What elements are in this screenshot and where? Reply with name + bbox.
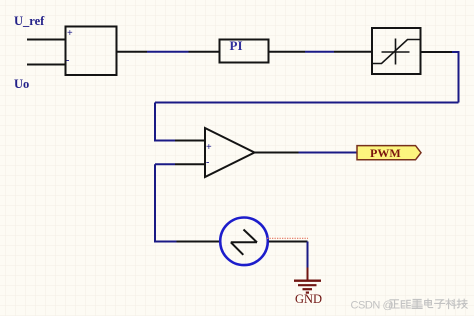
- comparator U2 triangle: [205, 128, 255, 177]
- limiter axis vertical: [395, 39, 397, 65]
- pin comparator plus: [175, 140, 205, 142]
- svg-text:-: -: [66, 55, 69, 66]
- wire oscillator to GND: [307, 242, 309, 268]
- pin U1 input +: [27, 39, 66, 41]
- wire PI to limiter: [305, 51, 334, 53]
- pin PI output: [270, 51, 306, 53]
- watermark chinese glyphs: [390, 299, 468, 309]
- limiter saturation curve: [372, 40, 421, 64]
- wire feedback horizontal: [155, 102, 459, 104]
- pin U1 output: [117, 51, 148, 53]
- oscillator sawtooth symbol: [231, 230, 257, 255]
- port PWM: [357, 146, 421, 160]
- svg-text:PI: PI: [230, 38, 243, 53]
- wire limiter output corner down: [452, 52, 459, 103]
- glyph 正: [390, 300, 400, 308]
- compile error marker (red dotted): [267, 237, 308, 239]
- wire comparator to PWM port: [299, 152, 358, 154]
- limiter block body: [372, 28, 421, 74]
- pin PI input: [189, 51, 219, 53]
- wire U1 to PI: [147, 51, 189, 53]
- svg-text:+: +: [206, 142, 212, 153]
- glyph 子: [435, 300, 445, 308]
- pin comparator minus: [175, 163, 205, 165]
- oscillator V1 circle: [220, 218, 268, 266]
- glyph 技: [457, 299, 467, 308]
- wire to comparator minus: [155, 163, 175, 165]
- limiter axis horizontal: [382, 51, 410, 53]
- wire comparator minus down left: [155, 164, 177, 241]
- pin comparator output: [255, 152, 299, 154]
- summing block U1 body: [66, 27, 117, 76]
- svg-text:GND: GND: [295, 292, 322, 306]
- pin oscillator left: [177, 241, 220, 243]
- pin limiter input: [334, 51, 371, 53]
- pin limiter output: [422, 51, 453, 53]
- glyph 能: [401, 300, 410, 308]
- glyph 量: [412, 299, 422, 308]
- svg-text:U_ref: U_ref: [14, 14, 45, 28]
- PI block body: [220, 40, 269, 63]
- glyph 科: [446, 299, 456, 309]
- wire down to comparator plus: [155, 103, 175, 141]
- svg-text:CSDN @: CSDN @: [351, 300, 394, 312]
- svg-text:+: +: [67, 28, 73, 39]
- svg-text:Uo: Uo: [14, 77, 29, 91]
- svg-text:-: -: [206, 157, 209, 168]
- svg-text:PWM: PWM: [370, 146, 401, 160]
- pin oscillator right: [269, 241, 308, 243]
- pin U1 input -: [27, 64, 66, 66]
- glyph 电: [425, 299, 433, 308]
- power port GND: [294, 268, 321, 293]
